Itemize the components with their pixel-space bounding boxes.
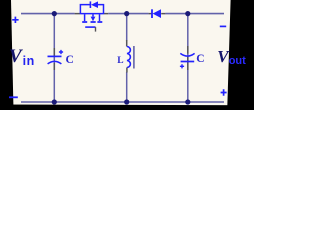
capacitor C2 (output) [180,46,195,70]
wire bottom rail [21,101,224,103]
polarity - (Vin bottom) [9,96,18,98]
svg-text:L: L [117,56,123,66]
polarity - (Vout top) [220,25,226,27]
cream schematic background [0,0,254,110]
black band left [0,0,14,110]
transistor Q1 MOSFET switch [75,1,109,31]
polarity + (Vin top) [12,17,18,23]
wire inductor branch lower [126,72,128,102]
node bottom rail / input cap junction [52,99,57,104]
wire top rail right segment (diode to output) [165,13,224,15]
wire output capacitor branch [187,14,189,102]
wire top rail middle segment (switch node to diode) [108,13,148,15]
svg-text:C: C [66,54,74,66]
black band bottom [0,105,254,111]
polarity + (Vout bottom) [221,89,227,95]
node switch input (top rail / input cap junction) [52,11,57,16]
node bottom rail / output cap junction [185,99,190,104]
svg-text:C: C [196,53,204,65]
svg-text:in: in [23,54,35,68]
svg-text:out: out [229,55,246,67]
node switch output (top rail / inductor junction) [124,11,129,16]
wire top rail left segment [21,13,75,15]
wire inductor branch upper [126,14,128,41]
node diode cathode / output cap junction [185,11,190,16]
node bottom rail / inductor junction [124,99,129,104]
wire input capacitor branch [53,14,55,102]
capacitor C1 (input) [48,48,64,70]
diode D1 [149,9,166,18]
svg-text:V: V [9,46,23,67]
black band right [227,0,254,110]
inductor L1 [127,40,134,73]
